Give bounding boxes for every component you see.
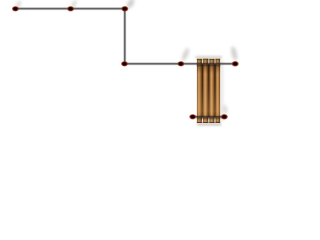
- node F: [189, 114, 196, 120]
- fence post plank 2: [203, 59, 208, 123]
- fence post plank 3: [209, 59, 214, 123]
- node E: [231, 61, 239, 67]
- plank bottom edges: [197, 121, 220, 123]
- fence post shadow right: [220, 60, 223, 122]
- node D: [177, 61, 184, 67]
- plank top caps: [197, 59, 220, 60]
- smoke wisp above node D: [180, 47, 190, 62]
- fence posts backing shadow (dark gap fill): [197, 64, 220, 117]
- node B: [67, 6, 74, 12]
- wire segment C1-C2 (vertical): [124, 9, 125, 64]
- smoke wisp above node A: [15, 0, 23, 9]
- node G: [221, 114, 229, 120]
- wire segment F-G (bottom horizontal): [193, 116, 225, 117]
- wire segment C2-D-E (middle horizontal): [125, 63, 236, 64]
- smoke wisp above node E: [230, 46, 239, 61]
- fence post plank 4: [216, 59, 221, 123]
- wire shadow on posts under upper wire: [197, 65, 220, 67]
- wire segment A-B-C1 (top horizontal): [15, 8, 124, 9]
- fence post plank 1: [197, 59, 202, 123]
- wire shadow on posts under lower wire: [197, 118, 220, 120]
- smoke wisp above node G: [223, 104, 228, 114]
- planks vertical shading overlay: [197, 59, 220, 123]
- smoke wisp above node C1: [125, 0, 136, 10]
- fence post shadow below: [197, 123, 221, 126]
- fence post shadow above: [196, 56, 223, 59]
- shading band below upper wire on posts: [197, 65, 220, 74]
- node A: [12, 6, 19, 12]
- node C2 (middle corner): [121, 61, 128, 67]
- node C1 (top corner): [121, 6, 129, 12]
- smoke wisp above node B: [70, 0, 78, 9]
